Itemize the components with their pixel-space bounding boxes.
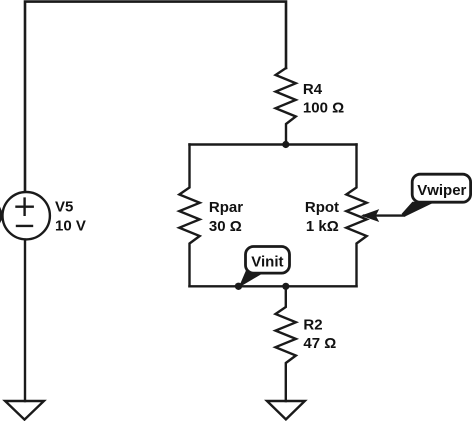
svg-text:V5: V5 bbox=[55, 199, 73, 216]
svg-text:Rpar: Rpar bbox=[209, 199, 243, 216]
svg-text:10 V: 10 V bbox=[55, 217, 86, 234]
svg-text:R2: R2 bbox=[303, 317, 322, 334]
svg-text:30 Ω: 30 Ω bbox=[209, 218, 242, 235]
svg-text:Vinit: Vinit bbox=[251, 254, 283, 271]
svg-text:Rpot: Rpot bbox=[305, 199, 339, 216]
svg-text:Vwiper: Vwiper bbox=[417, 182, 466, 199]
svg-text:R4: R4 bbox=[303, 81, 323, 98]
svg-text:1 kΩ: 1 kΩ bbox=[306, 218, 339, 235]
svg-text:47 Ω: 47 Ω bbox=[303, 335, 336, 352]
svg-text:100 Ω: 100 Ω bbox=[303, 100, 344, 117]
